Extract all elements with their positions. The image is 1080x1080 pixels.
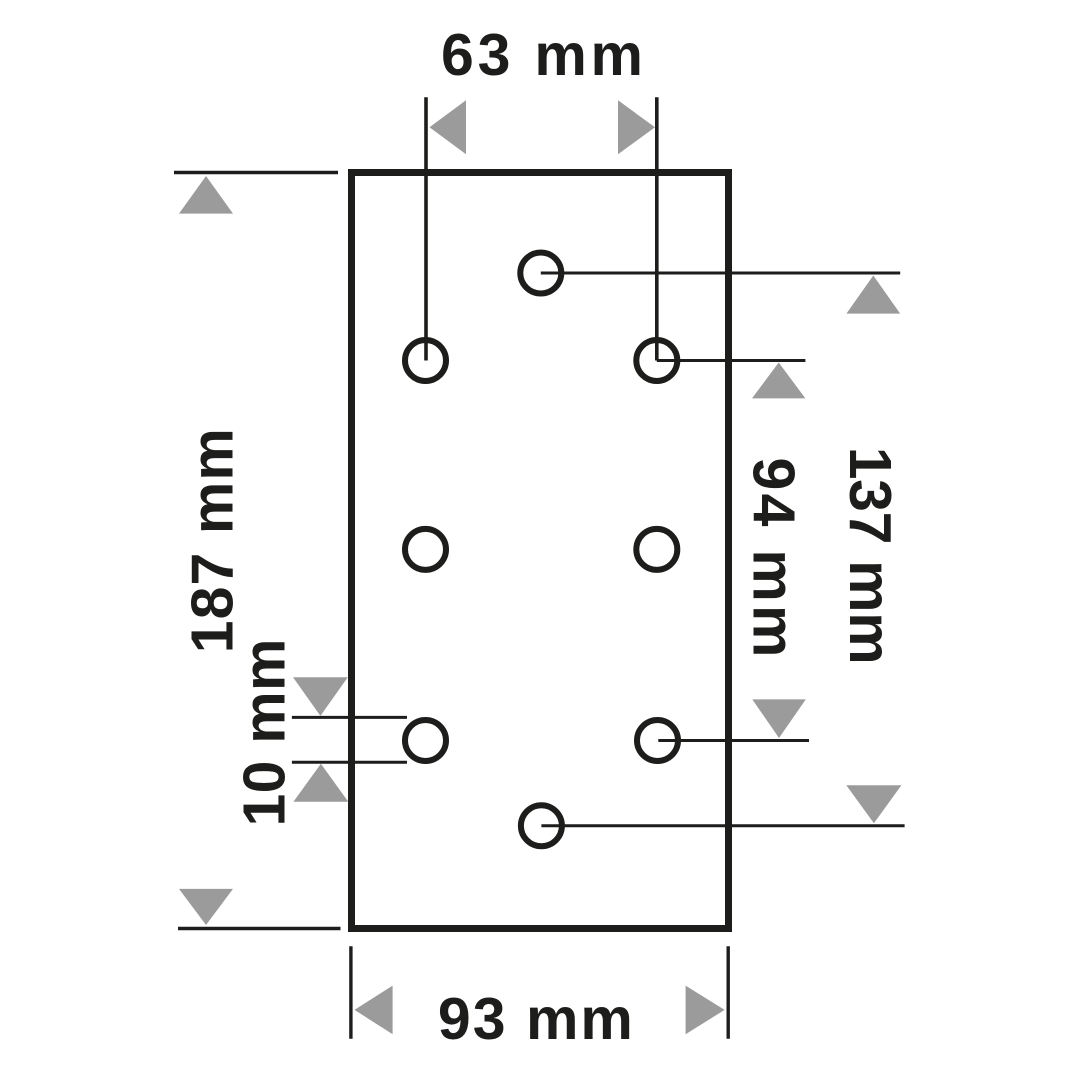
- arrow 63mm right: [618, 100, 655, 154]
- arrow 94mm down: [752, 699, 806, 738]
- leader from hole H7: [658, 739, 809, 742]
- leader from hole H1: [541, 272, 900, 275]
- svg-text:63 mm: 63 mm: [441, 22, 643, 88]
- dimension 63mm left witness line: [424, 97, 428, 360]
- dimension 93mm right extension line: [727, 946, 730, 1039]
- svg-text:137 mm: 137 mm: [837, 447, 903, 665]
- hole H7 lower-right: [637, 720, 678, 761]
- hole H8 bottom-middle: [521, 805, 562, 846]
- arrow 187mm down: [179, 889, 233, 925]
- hole H2 upper-left: [405, 340, 446, 381]
- dimension 187mm top extension line: [174, 171, 338, 174]
- hole H3 upper-right: [636, 340, 677, 381]
- leader from hole H3: [657, 359, 806, 362]
- arrow 10mm down: [293, 677, 348, 716]
- arrow 93mm left: [355, 986, 393, 1035]
- plate outline rectangle: [352, 173, 729, 929]
- dimension 63mm right witness line: [655, 97, 659, 360]
- hole H5 middle-right: [636, 529, 677, 570]
- arrow 10mm up: [293, 764, 348, 802]
- arrow 137mm up: [846, 276, 900, 314]
- arrow 93mm right: [686, 986, 725, 1035]
- arrow 187mm up: [179, 176, 233, 214]
- leader from hole H8: [541, 824, 904, 827]
- svg-text:187 mm: 187 mm: [180, 428, 246, 653]
- dimension 10mm top tangent line: [292, 716, 407, 719]
- arrow 94mm up: [752, 363, 805, 399]
- arrow 137mm down: [846, 785, 901, 823]
- dimension 93mm left extension line: [349, 946, 352, 1039]
- hole H6 lower-left: [405, 720, 446, 761]
- arrow 63mm left: [430, 100, 467, 154]
- hole H1 top-middle: [520, 253, 561, 294]
- hole H4 middle-left: [405, 529, 446, 570]
- dimension 187mm bottom extension line: [178, 927, 341, 930]
- svg-text:10 mm: 10 mm: [232, 639, 298, 827]
- svg-text:93 mm: 93 mm: [438, 986, 633, 1052]
- dimension 10mm bottom tangent line: [292, 761, 407, 764]
- svg-text:94 mm: 94 mm: [741, 458, 807, 658]
